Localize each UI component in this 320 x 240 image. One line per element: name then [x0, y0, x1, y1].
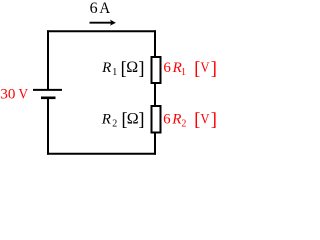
svg-text:R: R — [171, 112, 181, 128]
battery B1 long plate — [33, 89, 62, 91]
svg-text:]: ] — [138, 110, 144, 131]
wire right lower — [154, 133, 156, 155]
svg-text:A: A — [99, 0, 110, 17]
wire right middle — [154, 83, 156, 106]
resistor R2 — [152, 106, 161, 133]
battery B1 short plate — [41, 97, 56, 100]
svg-text:1: 1 — [181, 67, 186, 78]
label R2 [ohm] — [101, 110, 145, 131]
svg-text:V: V — [200, 60, 209, 76]
wire top — [47, 30, 156, 32]
svg-text:6: 6 — [90, 0, 98, 17]
svg-text:30: 30 — [0, 87, 15, 103]
svg-text:Ω: Ω — [127, 111, 139, 128]
svg-text:R: R — [101, 60, 111, 76]
wire right upper — [154, 30, 156, 57]
svg-text:1: 1 — [112, 67, 117, 78]
svg-text:6: 6 — [163, 60, 171, 76]
svg-text:V: V — [200, 112, 209, 128]
wire left upper — [47, 30, 49, 90]
svg-text:]: ] — [138, 59, 144, 80]
svg-text:2: 2 — [181, 119, 186, 130]
svg-text:]: ] — [211, 59, 217, 80]
svg-text:V: V — [19, 87, 29, 103]
label R1 [ohm] — [101, 59, 144, 80]
svg-text:Ω: Ω — [126, 59, 138, 76]
label 6R2 [V] — [163, 110, 217, 131]
resistor R1 — [152, 57, 161, 83]
wire left lower — [47, 98, 49, 155]
svg-text:R: R — [101, 112, 111, 128]
label 6R1 [V] — [163, 59, 217, 80]
svg-text:6: 6 — [163, 112, 171, 128]
wire bottom — [47, 153, 156, 155]
current arrow head — [110, 20, 116, 26]
svg-text:]: ] — [211, 110, 217, 131]
current arrow shaft — [90, 22, 112, 24]
svg-text:2: 2 — [112, 119, 117, 130]
